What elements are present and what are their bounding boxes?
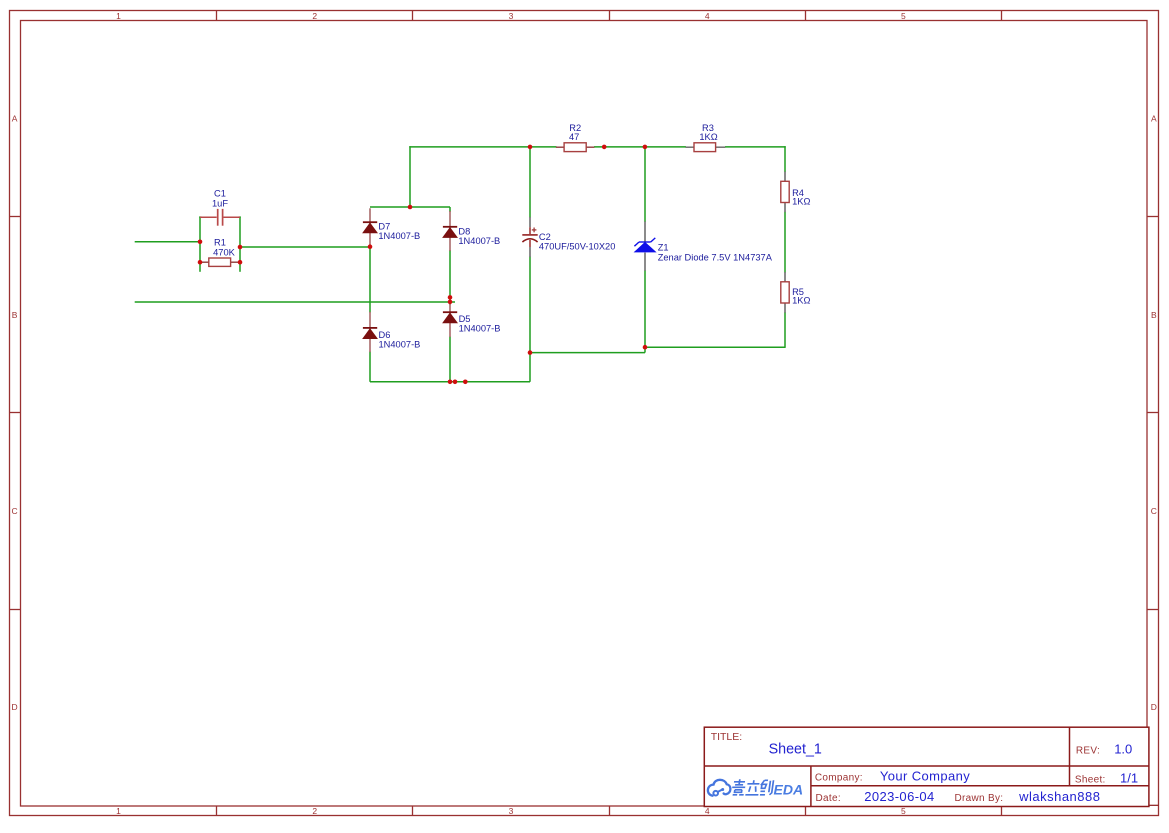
svg-text:B: B	[12, 310, 18, 320]
diode D8	[443, 211, 500, 251]
svg-text:wlakshan888: wlakshan888	[1018, 789, 1100, 804]
resistor R5	[781, 272, 811, 313]
node D5 top a	[448, 295, 453, 300]
svg-text:C1: C1	[214, 189, 226, 199]
resistor R3	[686, 123, 726, 152]
svg-text:C: C	[1151, 506, 1157, 516]
svg-text:2: 2	[312, 806, 317, 816]
svg-text:Company:: Company:	[815, 773, 863, 784]
node R1 right	[238, 260, 243, 265]
wire C2 bottom to Z1	[530, 352, 645, 354]
svg-text:Date:: Date:	[816, 793, 841, 804]
node C1 left	[198, 240, 203, 245]
svg-text:3: 3	[509, 11, 514, 21]
svg-text:D: D	[12, 702, 18, 712]
wire C1 top right nub	[238, 216, 241, 218]
resistor R4	[781, 172, 811, 213]
svg-text:TITLE:: TITLE:	[711, 731, 743, 743]
resistor R2	[556, 123, 595, 152]
wire Z1 column seg2	[644, 270, 646, 347]
wire R1 block to bridge	[240, 246, 370, 248]
svg-text:2023-06-04: 2023-06-04	[864, 789, 935, 804]
logo text JiaLiChuang (drawn strokes)	[731, 779, 773, 795]
node C2 bottom	[528, 350, 533, 355]
wire C1R1 right rail	[239, 216, 241, 271]
wire input long lower	[135, 301, 455, 303]
svg-text:1N4007-B: 1N4007-B	[379, 339, 421, 349]
node bottom c	[463, 380, 468, 385]
wire right column seg3	[784, 312, 786, 348]
svg-text:A: A	[12, 114, 18, 124]
svg-text:1KΩ: 1KΩ	[699, 132, 717, 142]
wire input top-left	[135, 241, 200, 243]
svg-text:D: D	[1151, 702, 1157, 712]
svg-text:Zenar Diode 7.5V 1N4737A: Zenar Diode 7.5V 1N4737A	[658, 253, 773, 263]
logo JLCEDA cloud icon	[708, 780, 731, 796]
wire C1R1 left rail	[199, 216, 201, 271]
node R1 left	[198, 260, 203, 265]
svg-text:Sheet_1: Sheet_1	[769, 742, 822, 758]
wire C1 top left nub	[199, 216, 202, 218]
svg-text:470K: 470K	[213, 248, 236, 258]
diode D5	[443, 304, 501, 337]
node Z1 bottom	[643, 345, 648, 350]
CIRCUIT WIRES	[135, 146, 786, 382]
wire Z1 column seg1	[644, 147, 646, 222]
svg-text:4: 4	[705, 11, 710, 21]
svg-text:1KΩ: 1KΩ	[792, 296, 810, 306]
svg-text:1: 1	[116, 11, 121, 21]
wire jog at Z1 bottom	[644, 347, 646, 352]
capacitor C1	[200, 189, 240, 226]
svg-text:1N4007-B: 1N4007-B	[458, 236, 500, 246]
node D7 anode	[368, 244, 373, 249]
wire bridge left column seg1	[369, 245, 371, 313]
svg-text:1KΩ: 1KΩ	[792, 197, 810, 207]
title block texts	[711, 731, 1138, 804]
wire C2 column seg2	[529, 257, 531, 382]
zener diode Z1	[634, 222, 772, 271]
wire bridge top connector	[370, 206, 450, 208]
wire bridge bottom	[370, 381, 530, 383]
svg-text:Sheet:: Sheet:	[1075, 775, 1106, 786]
wire right column seg2	[784, 212, 786, 273]
svg-text:2: 2	[312, 11, 317, 21]
svg-text:EDA: EDA	[774, 781, 804, 797]
svg-text:C: C	[12, 506, 18, 516]
svg-text:Z1: Z1	[658, 243, 669, 253]
svg-text:A: A	[1151, 114, 1157, 124]
wire riser to top rail	[409, 146, 411, 207]
wire top rail seg2	[594, 146, 686, 148]
svg-text:Your Company: Your Company	[880, 769, 970, 784]
wire bridge right column seg2	[449, 250, 451, 305]
diode D6	[363, 312, 420, 352]
node D5 top b	[448, 300, 453, 305]
wire bridge right column seg3	[449, 337, 451, 382]
wire right column seg1	[784, 146, 786, 172]
svg-text:47: 47	[569, 132, 579, 142]
node C1R1 right upper	[238, 245, 243, 250]
wire bridge left column seg2	[369, 352, 371, 382]
diode D7	[363, 208, 420, 246]
svg-text:1.0: 1.0	[1114, 741, 1132, 756]
wire top rail seg1	[409, 146, 556, 148]
svg-text:3: 3	[509, 806, 514, 816]
svg-text:1N4007-B: 1N4007-B	[459, 323, 501, 333]
node R2 right	[602, 145, 607, 150]
wire Z1 bottom to right column	[645, 346, 785, 348]
wire bridge right column seg1	[449, 207, 451, 212]
svg-text:1uF: 1uF	[212, 199, 228, 209]
svg-text:4: 4	[705, 806, 710, 816]
svg-text:R1: R1	[214, 237, 226, 247]
svg-text:REV:: REV:	[1076, 745, 1100, 756]
node Z1 top	[643, 145, 648, 150]
svg-text:5: 5	[901, 806, 906, 816]
junction dots	[198, 145, 648, 385]
wire top rail seg3	[725, 146, 786, 148]
svg-text:B: B	[1151, 310, 1157, 320]
wire C2 column seg1	[529, 147, 531, 218]
node bottom a	[448, 380, 453, 385]
node C2 top	[528, 145, 533, 150]
title block frame	[704, 727, 1158, 806]
node bridge top	[408, 205, 413, 210]
svg-text:470UF/50V-10X20: 470UF/50V-10X20	[539, 242, 616, 252]
svg-text:1/1: 1/1	[1120, 770, 1138, 785]
node bottom b	[453, 380, 458, 385]
capacitor C2	[522, 217, 615, 257]
svg-text:Drawn By:: Drawn By:	[955, 793, 1004, 804]
svg-text:1N4007-B: 1N4007-B	[378, 231, 420, 241]
resistor R1	[201, 237, 239, 266]
svg-text:1: 1	[116, 806, 121, 816]
svg-text:5: 5	[901, 11, 906, 21]
